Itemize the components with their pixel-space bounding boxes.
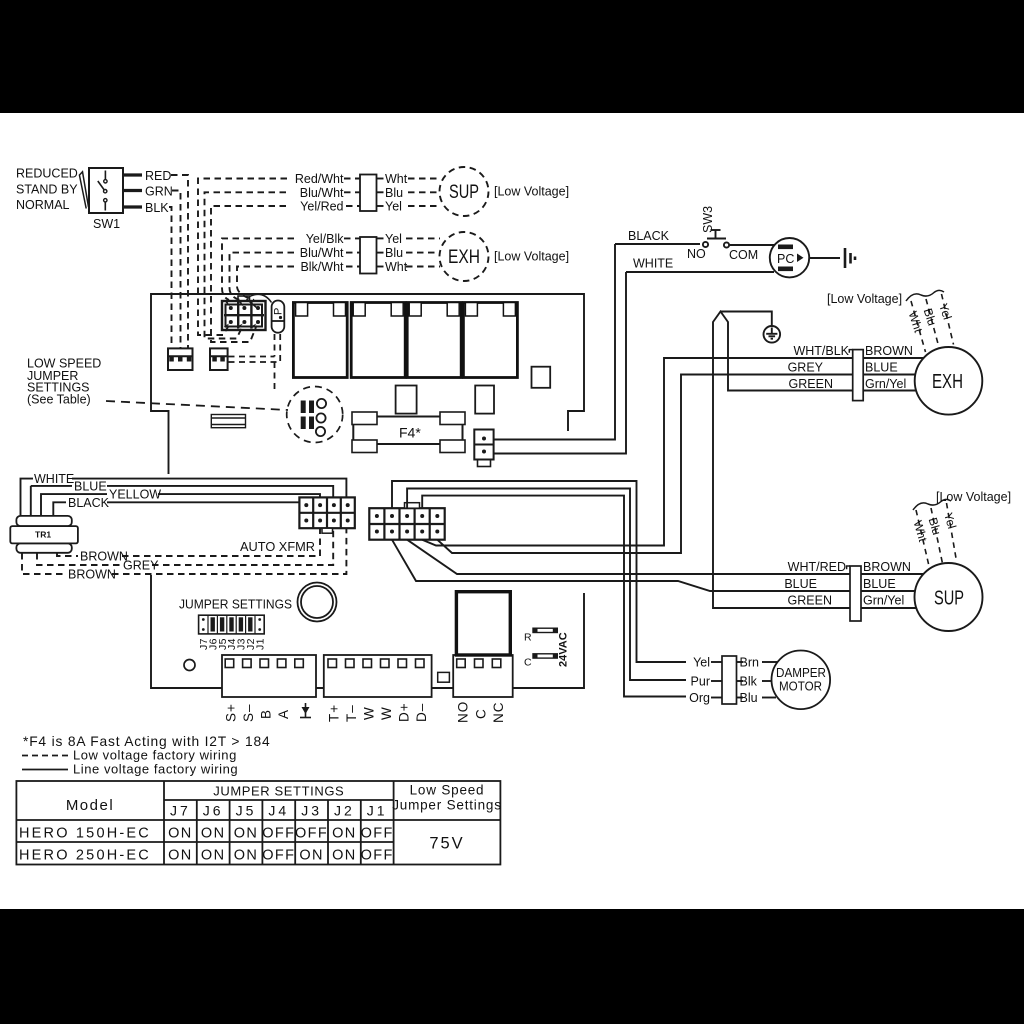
svg-text:NO: NO [456, 701, 471, 723]
svg-text:COM: COM [729, 248, 758, 262]
svg-text:GREEN: GREEN [788, 594, 832, 608]
svg-text:[Low Voltage]: [Low Voltage] [494, 250, 569, 264]
svg-text:WHITE: WHITE [633, 257, 673, 271]
svg-text:Line voltage factory wiring: Line voltage factory wiring [73, 762, 238, 777]
svg-text:BLUE: BLUE [784, 577, 817, 591]
svg-text:[Low Voltage]: [Low Voltage] [827, 292, 902, 306]
svg-text:W: W [379, 706, 394, 720]
svg-text:TR1: TR1 [35, 530, 51, 540]
svg-text:Yel: Yel [385, 200, 402, 214]
svg-text:F4*: F4* [399, 425, 421, 441]
svg-text:Pur: Pur [691, 675, 710, 689]
svg-text:Blu: Blu [740, 691, 758, 705]
svg-text:R: R [524, 632, 532, 644]
svg-text:A: A [276, 709, 291, 719]
svg-text:J3: J3 [301, 803, 322, 819]
svg-text:[Low Voltage]: [Low Voltage] [494, 185, 569, 199]
svg-text:Wht: Wht [385, 172, 408, 186]
svg-text:Jumper Settings: Jumper Settings [392, 798, 502, 813]
svg-text:T–: T– [344, 704, 359, 722]
svg-text:BLUE: BLUE [863, 577, 896, 591]
svg-text:ON: ON [201, 826, 226, 842]
svg-text:GREY: GREY [123, 559, 159, 573]
svg-text:SUP: SUP [934, 588, 964, 610]
svg-text:NO: NO [687, 247, 706, 261]
svg-text:Blu: Blu [385, 246, 403, 260]
svg-text:MOTOR: MOTOR [779, 679, 822, 694]
svg-text:J1: J1 [254, 638, 266, 650]
svg-text:PC: PC [777, 252, 794, 266]
svg-text:OFF: OFF [262, 826, 295, 842]
svg-text:J7: J7 [170, 803, 191, 819]
svg-text:ON: ON [201, 848, 226, 864]
svg-text:C: C [524, 657, 532, 669]
svg-text:Yel: Yel [693, 656, 710, 670]
svg-text:REDUCED: REDUCED [16, 167, 78, 181]
svg-text:75V: 75V [429, 835, 464, 853]
svg-text:Low voltage factory wiring: Low voltage factory wiring [73, 748, 237, 763]
svg-text:JUMPER SETTINGS: JUMPER SETTINGS [213, 784, 344, 799]
svg-text:W: W [362, 706, 377, 720]
svg-text:J4: J4 [268, 803, 289, 819]
svg-text:GRN: GRN [145, 185, 173, 199]
svg-text:Blu/Wht: Blu/Wht [300, 186, 344, 200]
svg-text:Org: Org [689, 691, 710, 705]
svg-text:24VAC: 24VAC [558, 632, 570, 667]
svg-text:BLACK: BLACK [628, 229, 670, 243]
svg-text:WHITE: WHITE [34, 472, 74, 486]
svg-text:ON: ON [234, 848, 259, 864]
svg-text:BROWN: BROWN [68, 568, 116, 582]
svg-text:Blk/Wht: Blk/Wht [300, 260, 344, 274]
svg-text:WHT/BLK: WHT/BLK [793, 344, 849, 358]
svg-text:ON: ON [168, 848, 193, 864]
svg-text:OFF: OFF [262, 848, 295, 864]
svg-text:Yel/Red: Yel/Red [300, 200, 343, 214]
svg-text:SW3: SW3 [701, 206, 715, 233]
svg-text:D+: D+ [397, 702, 412, 722]
svg-text:(See Table): (See Table) [27, 393, 91, 407]
svg-text:ON: ON [332, 848, 357, 864]
svg-text:ON: ON [234, 826, 259, 842]
svg-text:WHT/RED: WHT/RED [788, 560, 846, 574]
svg-text:NC: NC [491, 702, 506, 724]
svg-text:P: P [273, 308, 285, 315]
svg-text:AUTO XFMR: AUTO XFMR [240, 540, 315, 554]
svg-text:GREY: GREY [788, 361, 824, 375]
svg-text:S+: S+ [224, 703, 239, 722]
svg-text:Model: Model [66, 797, 114, 814]
svg-text:ON: ON [299, 848, 324, 864]
svg-text:Blk: Blk [740, 675, 758, 689]
svg-text:OFF: OFF [361, 848, 394, 864]
svg-text:SUP: SUP [449, 182, 479, 203]
svg-text:JUMPER SETTINGS: JUMPER SETTINGS [179, 598, 292, 612]
svg-text:ON: ON [168, 826, 193, 842]
svg-text:J2: J2 [334, 803, 355, 819]
svg-text:OFF: OFF [295, 826, 328, 842]
svg-text:J1: J1 [367, 803, 388, 819]
svg-text:J5: J5 [236, 803, 257, 819]
svg-text:ON: ON [332, 826, 357, 842]
svg-text:HERO 150H-EC: HERO 150H-EC [19, 826, 151, 842]
svg-text:BLK: BLK [145, 201, 169, 215]
svg-text:Grn/Yel: Grn/Yel [863, 594, 904, 608]
svg-text:Low Speed: Low Speed [410, 783, 485, 798]
svg-text:BLACK: BLACK [68, 496, 110, 510]
svg-text:Grn/Yel: Grn/Yel [865, 377, 906, 391]
svg-text:Blu/Wht: Blu/Wht [300, 246, 344, 260]
svg-text:Brn: Brn [740, 656, 760, 670]
svg-text:OFF: OFF [361, 826, 394, 842]
svg-text:J6: J6 [203, 803, 224, 819]
svg-text:BROWN: BROWN [863, 560, 911, 574]
svg-text:BROWN: BROWN [865, 344, 913, 358]
svg-text:Blu: Blu [385, 186, 403, 200]
svg-text:C: C [473, 708, 488, 719]
svg-text:BLUE: BLUE [74, 480, 107, 494]
svg-text:EXH: EXH [932, 371, 963, 393]
svg-text:BLUE: BLUE [865, 361, 898, 375]
svg-text:Yel: Yel [385, 232, 402, 246]
svg-text:NORMAL: NORMAL [16, 198, 70, 212]
svg-text:HERO 250H-EC: HERO 250H-EC [19, 848, 151, 864]
svg-text:GREEN: GREEN [789, 377, 833, 391]
svg-text:YELLOW: YELLOW [109, 488, 161, 502]
svg-text:BROWN: BROWN [80, 550, 128, 564]
svg-text:RED: RED [145, 169, 171, 183]
svg-text:B: B [259, 709, 274, 719]
svg-text:Yel/Blk: Yel/Blk [306, 232, 345, 246]
svg-text:[Low Voltage]: [Low Voltage] [936, 490, 1011, 504]
svg-text:SW1: SW1 [93, 217, 120, 231]
svg-text:T+: T+ [327, 704, 342, 722]
svg-text:STAND BY: STAND BY [16, 183, 78, 197]
svg-text:EXH: EXH [448, 247, 480, 268]
svg-text:Wht: Wht [385, 260, 408, 274]
svg-text:D–: D– [414, 703, 429, 722]
svg-text:Red/Wht: Red/Wht [295, 172, 344, 186]
svg-text:S–: S– [241, 703, 256, 722]
